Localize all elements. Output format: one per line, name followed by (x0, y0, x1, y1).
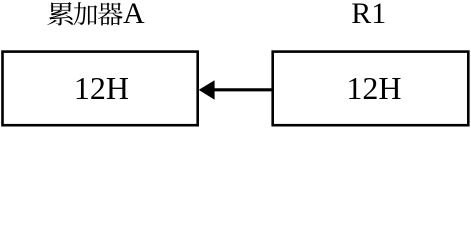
svg-text:12H: 12H (346, 70, 401, 106)
label text glyph 累 (47, 2, 73, 25)
register box accumulator A (3, 52, 198, 126)
arrowhead pointing to accumulator A (199, 80, 215, 100)
svg-text:12H: 12H (74, 70, 129, 106)
label text glyph 器 (98, 3, 123, 26)
svg-text:R1: R1 (351, 0, 386, 30)
label text glyph 加 (73, 2, 97, 25)
svg-text:A: A (123, 0, 145, 30)
register box R1 (273, 52, 469, 126)
wire from R1 to A (214, 88, 273, 91)
